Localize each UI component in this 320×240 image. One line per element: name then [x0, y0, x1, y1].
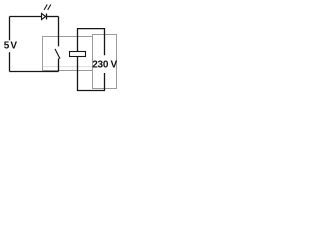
svg-text:230 V: 230 V — [92, 59, 117, 70]
svg-text:5 V: 5 V — [4, 41, 18, 52]
